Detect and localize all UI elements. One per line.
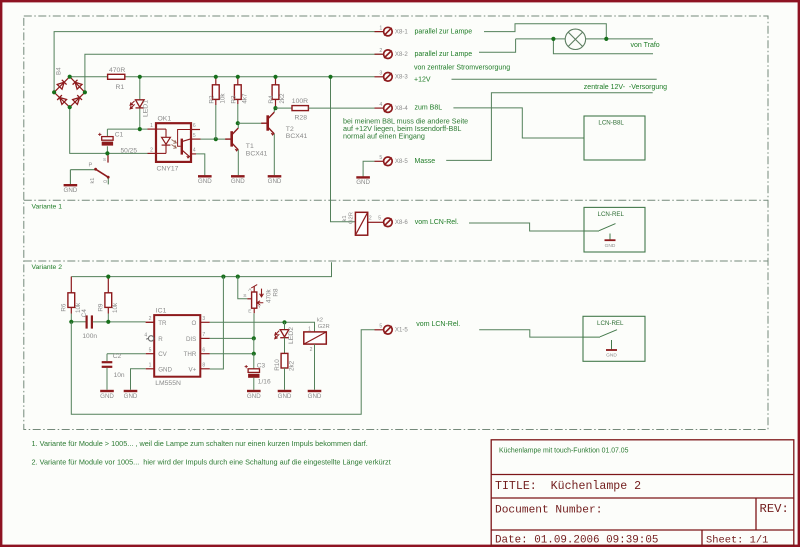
svg-text:470R: 470R	[109, 67, 125, 74]
wire TR stub	[146, 321, 155, 323]
capacitor C4	[87, 315, 92, 328]
resistor R10	[281, 353, 288, 368]
ground LCN-REL V1	[605, 239, 616, 241]
wire k2 to ground	[314, 344, 316, 390]
OK1 internal LED	[156, 129, 170, 153]
OK1 pin 2	[148, 152, 157, 154]
svg-text:1/16: 1/16	[258, 378, 271, 385]
junction R9/TR node	[106, 320, 110, 324]
svg-text:GND: GND	[278, 393, 292, 400]
wire lamp line	[516, 38, 653, 40]
IC1 pin R	[148, 336, 153, 341]
svg-text:GND: GND	[606, 353, 617, 359]
svg-text:LCN-B8L: LCN-B8L	[598, 120, 624, 127]
wire C1 bottom lead	[106, 146, 108, 153]
svg-text:Variante 2: Variante 2	[32, 264, 63, 271]
svg-text:GND: GND	[247, 393, 261, 400]
svg-text:X1-5: X1-5	[395, 327, 408, 334]
svg-text:5: 5	[193, 133, 196, 139]
junction C1 bottom node	[105, 151, 109, 155]
svg-text:vom LCN-Rel.: vom LCN-Rel.	[415, 219, 459, 226]
svg-text:X8-1: X8-1	[395, 28, 408, 35]
box LCN-B8L	[584, 116, 645, 160]
svg-text:4: 4	[193, 148, 196, 154]
resistor R1	[108, 74, 125, 79]
wire X8-1 stub to lamp	[484, 24, 606, 39]
title block frame	[491, 440, 794, 546]
capacitor C3	[248, 369, 259, 373]
svg-text:GND: GND	[158, 366, 172, 373]
wire LED1 branch	[139, 77, 141, 100]
svg-text:CNY17: CNY17	[157, 165, 179, 172]
svg-text:parallel zur Lampe: parallel zur Lampe	[415, 28, 473, 35]
wire X1-5 net bottom loop	[71, 322, 374, 414]
ground C3	[247, 390, 261, 392]
OK1 pin 1	[148, 128, 157, 130]
lamp symbol	[565, 29, 585, 49]
resistor R2	[212, 85, 219, 100]
wire T2 base	[238, 122, 263, 124]
svg-text:GND: GND	[198, 178, 212, 185]
transistor T2	[261, 122, 267, 124]
svg-text:C4: C4	[81, 309, 88, 318]
LCN-REL V2 switch	[583, 330, 617, 350]
resistor R4 leads	[275, 77, 277, 85]
ground k2	[308, 390, 322, 392]
junction bridge bottom	[68, 105, 72, 109]
svg-text:10k: 10k	[219, 93, 226, 104]
resistor R6 leads	[70, 277, 72, 293]
svg-text:Document Number:: Document Number:	[495, 504, 602, 516]
svg-text:4k7: 4k7	[241, 93, 248, 104]
svg-text:Date: 01.09.2006 09:39:05: Date: 01.09.2006 09:39:05	[495, 534, 658, 546]
wire T1 collector	[237, 123, 239, 128]
wire pot S drop	[238, 277, 248, 299]
svg-text:5: 5	[379, 324, 382, 330]
wire TR line right	[93, 321, 146, 323]
wire C1 top lead	[106, 129, 108, 137]
switch k1 touch contact	[70, 155, 109, 184]
svg-text:DIS: DIS	[186, 336, 196, 343]
wire Masse return line	[446, 93, 653, 161]
junction bridge right	[83, 90, 87, 94]
junction rail R9	[106, 275, 110, 279]
IC1 pin V+	[200, 368, 210, 370]
connector X1-5	[375, 329, 384, 331]
wire T2 emitter to ground	[273, 134, 275, 175]
wire CV line	[107, 353, 146, 355]
wire base node T1	[201, 138, 228, 140]
wire node LED1/C1/OK1 pin1	[107, 128, 147, 130]
resistor R6	[68, 293, 75, 308]
wire vom LCN-Rel link V1	[469, 223, 584, 231]
svg-text:3: 3	[379, 71, 382, 77]
svg-text:1. Variante für Module > 1005.: 1. Variante für Module > 1005... , weil …	[32, 439, 368, 448]
junction DIS pot	[252, 336, 256, 340]
svg-text:GND: GND	[100, 393, 114, 400]
svg-text:6: 6	[202, 347, 205, 353]
svg-text:1: 1	[379, 25, 382, 31]
ground OK1	[198, 175, 212, 177]
wire TR line left	[71, 321, 86, 323]
transistor T1	[225, 138, 231, 140]
wire net X8-1 to bridge	[54, 32, 383, 93]
svg-text:CV: CV	[158, 351, 167, 358]
IC1 pin O	[200, 321, 210, 323]
wire +12V rail	[70, 76, 375, 78]
wire V+ drop	[210, 277, 224, 369]
svg-text:R28: R28	[295, 115, 308, 122]
svg-text:Küchenlampe mit touch-Funktion: Küchenlampe mit touch-Funktion 01.07.05	[499, 447, 629, 454]
junction bridge top	[68, 75, 72, 79]
resistor R9 leads	[107, 277, 109, 293]
wire +12V rail Variante 2	[71, 262, 331, 276]
svg-text:REV:: REV:	[760, 502, 789, 516]
ground IC1	[124, 390, 138, 392]
OK1 pin 4	[191, 153, 196, 155]
svg-text:50/25: 50/25	[121, 148, 138, 155]
wire C3 to ground	[253, 378, 255, 390]
wire OK1 pin4 to ground	[196, 154, 205, 175]
svg-text:TITLE: Küchenlampe 2: TITLE: Küchenlampe 2	[495, 480, 641, 493]
junction rail pot drop	[236, 275, 240, 279]
junction rail R4	[273, 75, 277, 79]
junction rail V+ drop	[221, 275, 225, 279]
junction rail/LED1	[138, 75, 142, 79]
junction base T1 node	[214, 137, 218, 141]
capacitor C2	[102, 362, 113, 367]
svg-text:100R: 100R	[292, 98, 308, 105]
svg-text:BCX41: BCX41	[246, 151, 268, 158]
svg-text:C1: C1	[115, 131, 124, 138]
IC1 pin THR	[200, 353, 210, 355]
svg-text:5: 5	[379, 155, 382, 161]
svg-text:THR: THR	[184, 351, 197, 358]
connector X8-2	[375, 53, 384, 55]
resistor R28	[292, 106, 308, 111]
junction T1 collector node	[236, 121, 240, 125]
wire trafo lower lead	[553, 39, 653, 54]
svg-text:B4: B4	[56, 67, 63, 75]
svg-text:LED2: LED2	[288, 327, 295, 344]
svg-text:Variante 1: Variante 1	[32, 203, 63, 210]
junction THR C3	[252, 352, 256, 356]
junction rail 12V drop	[328, 75, 332, 79]
resistor R9	[105, 293, 112, 308]
svg-text:normal auf einen Eingang: normal auf einen Eingang	[343, 132, 425, 141]
svg-text:X8-2: X8-2	[395, 51, 408, 58]
resistor R4	[272, 85, 279, 100]
svg-text:OK1: OK1	[158, 116, 172, 123]
svg-text:GND: GND	[124, 393, 138, 400]
svg-text:2k2: 2k2	[279, 93, 286, 104]
svg-text:zum B8L: zum B8L	[415, 105, 443, 112]
wire LED2 top	[284, 322, 286, 329]
svg-text:R2: R2	[208, 95, 215, 104]
junction bridge left	[52, 90, 56, 94]
svg-text:10k: 10k	[112, 302, 119, 313]
connector X8-1	[375, 31, 384, 33]
wire DIS-THR link	[253, 338, 255, 353]
svg-text:R9: R9	[98, 303, 105, 312]
svg-text:R6: R6	[61, 303, 68, 312]
svg-text:GND: GND	[605, 243, 616, 249]
svg-text:X8-3: X8-3	[395, 74, 408, 81]
svg-text:10n: 10n	[114, 372, 125, 379]
svg-text:1: 1	[149, 362, 152, 368]
wire O line	[210, 322, 315, 332]
svg-text:X8-4: X8-4	[395, 105, 408, 112]
svg-text:R4: R4	[268, 95, 275, 104]
IC1 pin GND	[146, 368, 155, 370]
svg-text:2: 2	[149, 316, 152, 322]
svg-text:k1: k1	[342, 215, 348, 221]
ground T1	[231, 175, 245, 177]
svg-text:V+: V+	[189, 366, 197, 373]
ground T2	[268, 175, 282, 177]
svg-text:von Trafo: von Trafo	[631, 42, 660, 49]
svg-text:LCN-REL: LCN-REL	[598, 211, 625, 218]
svg-text:1: 1	[150, 123, 153, 129]
svg-text:S: S	[103, 157, 106, 162]
ground R10	[278, 390, 292, 392]
connector X8-5	[375, 160, 384, 162]
wire zum B8L link	[453, 108, 584, 138]
svg-text:8: 8	[202, 362, 205, 368]
wire T1 emitter to ground	[237, 150, 239, 175]
connector X8-6	[375, 221, 384, 223]
wire zentrale 12V drop to relay k1	[331, 77, 356, 222]
svg-text:4: 4	[144, 332, 147, 338]
LED LED2	[280, 330, 289, 337]
svg-text:2: 2	[150, 147, 153, 153]
svg-text:3: 3	[202, 316, 205, 322]
wire R28 to X8-4	[308, 107, 374, 109]
svg-text:O: O	[103, 179, 107, 185]
svg-text:TR: TR	[158, 320, 167, 327]
svg-text:R3: R3	[230, 95, 237, 104]
ground X8-5	[356, 176, 370, 178]
svg-text:2: 2	[369, 216, 372, 222]
svg-text:2: 2	[379, 48, 382, 54]
wire R10 to ground	[284, 368, 286, 390]
connector X8-4	[375, 107, 384, 109]
svg-text:T2: T2	[286, 126, 294, 133]
svg-text:Masse: Masse	[415, 158, 436, 165]
svg-text:2: 2	[310, 347, 313, 353]
OK1 pin 6 stub	[191, 129, 200, 131]
svg-text:G2R: G2R	[318, 324, 330, 330]
LED LED1	[136, 100, 145, 107]
junction lamp right	[604, 37, 608, 41]
ground under switch	[64, 184, 78, 186]
svg-text:k2: k2	[317, 317, 323, 323]
wire LED2 to R10	[284, 338, 286, 354]
svg-text:T1: T1	[246, 143, 254, 150]
relay k1 pin line to X8-6	[368, 221, 375, 223]
svg-text:P: P	[89, 163, 93, 169]
box LCN-REL Variante 1	[584, 207, 645, 252]
wire X8-2 stub to lamp	[479, 39, 516, 52]
resistor R3 leads	[237, 77, 239, 85]
schematic frame (dash-dot)	[24, 16, 768, 430]
svg-text:GND: GND	[231, 178, 245, 185]
resistor R3	[234, 85, 241, 100]
svg-text:+12V: +12V	[414, 77, 431, 84]
svg-text:6: 6	[193, 123, 196, 129]
optocoupler OK1 box	[156, 123, 191, 162]
svg-text:100n: 100n	[82, 333, 97, 340]
wire IC1 GND to ground	[131, 369, 146, 390]
svg-text:X8-6: X8-6	[395, 219, 408, 226]
wire vom LCN-Rel link V2	[479, 330, 583, 337]
svg-text:Sheet: 1/1: Sheet: 1/1	[706, 534, 768, 546]
ground LCN-REL V2	[606, 349, 617, 351]
wire THR to C3	[253, 354, 255, 369]
OK1 phototransistor	[178, 130, 191, 159]
junction R6/C4 node	[69, 320, 73, 324]
wire X8-5 Masse to ground	[363, 161, 374, 176]
bridge rectifier B4	[54, 77, 85, 108]
svg-text:C3: C3	[257, 362, 266, 369]
junction T2 collector node	[273, 106, 277, 110]
IC1 pin TR	[146, 321, 155, 323]
IC1 pin DIS	[200, 337, 210, 339]
svg-text:X8-5: X8-5	[395, 158, 408, 165]
svg-text:LCN-REL: LCN-REL	[597, 320, 624, 327]
svg-text:parallel zur Lampe: parallel zur Lampe	[415, 51, 473, 58]
connector X8-3	[375, 76, 384, 78]
svg-text:GND: GND	[308, 393, 322, 400]
svg-text:von zentraler Stromversorgung: von zentraler Stromversorgung	[414, 65, 510, 72]
svg-text:5: 5	[378, 216, 381, 222]
svg-text:BCX41: BCX41	[286, 133, 308, 140]
junction O LED2	[282, 320, 286, 324]
svg-text:vom LCN-Rel.: vom LCN-Rel.	[416, 321, 460, 328]
LCN-REL V1 switch	[584, 224, 616, 240]
potentiometer R8	[247, 285, 263, 314]
svg-text:LED1: LED1	[142, 100, 149, 117]
svg-text:GND: GND	[268, 178, 282, 185]
svg-text:C2: C2	[113, 353, 122, 360]
resistor R2 leads	[215, 77, 217, 85]
IC1 pin CV	[146, 353, 155, 355]
relay k1	[355, 212, 367, 235]
box LCN-REL Variante 2	[583, 316, 645, 361]
ground C2	[100, 390, 114, 392]
junction rail R3	[236, 75, 240, 79]
svg-text:GND: GND	[64, 187, 78, 194]
svg-text:zentrale 12V- -Versorgung: zentrale 12V- -Versorgung	[584, 84, 667, 91]
svg-text:5: 5	[149, 347, 152, 353]
wire C2 leads	[106, 354, 108, 361]
svg-text:G2R: G2R	[348, 212, 354, 224]
svg-text:R10: R10	[274, 359, 281, 371]
OK1 pin 5	[191, 138, 201, 140]
wire THR line	[210, 353, 254, 355]
wire net X8-2 to bridge	[85, 54, 384, 92]
svg-text:O: O	[191, 320, 196, 327]
junction rail R2	[214, 75, 218, 79]
junction lamp left	[551, 37, 555, 41]
wire R28 left	[276, 107, 292, 109]
capacitor C1	[102, 137, 113, 141]
wire zentrale 12V line	[452, 78, 657, 80]
svg-text:1: 1	[308, 326, 311, 332]
wire R6 bottom	[70, 314, 72, 322]
relay k2	[304, 332, 327, 344]
svg-text:GND: GND	[356, 179, 370, 186]
svg-text:4: 4	[379, 102, 382, 108]
wire pot E to DIS	[253, 313, 255, 338]
wire DIS line	[210, 337, 254, 339]
svg-text:R1: R1	[116, 84, 125, 91]
svg-text:R: R	[158, 336, 163, 343]
OK1 light arrows	[172, 140, 177, 149]
svg-text:2k2: 2k2	[288, 360, 295, 371]
svg-text:470k: 470k	[265, 288, 272, 303]
wire T2 collector	[273, 108, 275, 112]
wire bridge minus to OK1 pin2	[70, 107, 148, 153]
svg-text:2. Variante für Module vor 100: 2. Variante für Module vor 1005... hier …	[32, 458, 391, 467]
svg-text:R8: R8	[272, 288, 279, 297]
svg-text:IC1: IC1	[156, 307, 167, 314]
svg-text:k1: k1	[90, 178, 96, 184]
junction LED1/C1/OK1	[138, 127, 142, 131]
svg-text:7: 7	[202, 332, 205, 338]
wire R9 bottom	[107, 314, 109, 322]
svg-text:LM555N: LM555N	[155, 380, 181, 387]
IC IC1 LM555N box	[154, 315, 200, 377]
wire R2 bottom	[215, 105, 217, 139]
wire R3 bottom to T1 collector node	[237, 104, 239, 123]
